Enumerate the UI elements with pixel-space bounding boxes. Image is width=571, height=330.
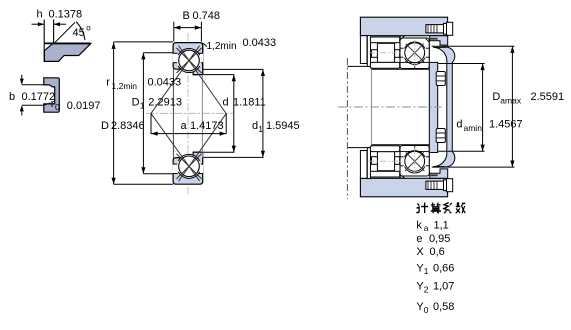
QJ bottom ball <box>405 151 425 171</box>
B extension lines <box>173 22 175 42</box>
main horizontal centerline <box>338 106 442 108</box>
roller bearing bottom inner ring <box>370 146 399 152</box>
svg-text:a: a <box>181 120 188 132</box>
svg-text:e: e <box>416 233 422 245</box>
svg-text:D: D <box>132 97 140 109</box>
svg-text:1.5945: 1.5945 <box>266 120 300 132</box>
roller centerline bottom <box>369 160 402 162</box>
svg-text:D: D <box>101 120 109 132</box>
roller bearing top outer ring <box>370 37 399 43</box>
bottom ball <box>179 156 200 177</box>
ball centerline bottom <box>414 148 416 175</box>
svg-text:1.1811: 1.1811 <box>233 97 266 109</box>
svg-text:r: r <box>106 77 110 89</box>
QJ top inner ring split <box>400 62 429 64</box>
svg-text:0.0433: 0.0433 <box>148 77 182 89</box>
housing bottom band <box>360 178 447 197</box>
45 degree arc <box>76 22 85 40</box>
QJ top corner notch <box>400 36 404 40</box>
svg-text:1.4173: 1.4173 <box>190 120 224 132</box>
title glyph xi <box>444 203 452 214</box>
bolt hole bar bottom <box>431 174 438 176</box>
bottom raceway arcs <box>178 154 199 178</box>
svg-text:B: B <box>183 10 190 22</box>
top ball cross lines <box>177 48 202 73</box>
bottom ball cross lines <box>177 154 202 179</box>
extension line right <box>53 20 55 44</box>
svg-text:d: d <box>252 120 258 132</box>
svg-text:1,2min: 1,2min <box>207 41 237 52</box>
title glyph ji <box>416 203 428 214</box>
svg-text:0.1378: 0.1378 <box>49 9 83 21</box>
ring top surface line <box>44 42 91 44</box>
svg-text:1: 1 <box>140 100 145 110</box>
svg-text:0,66: 0,66 <box>433 262 454 274</box>
bottom block left face notch <box>173 164 178 173</box>
svg-text:h: h <box>37 9 43 21</box>
d dimension line <box>233 75 235 153</box>
QJ bottom inner ring split <box>400 150 429 152</box>
svg-text:0.0197: 0.0197 <box>67 100 101 112</box>
title glyph shu <box>456 202 466 213</box>
a dimension ticks <box>150 113 152 134</box>
top block left face notch <box>173 53 178 62</box>
B dimension line <box>174 27 202 29</box>
QJ top ball <box>405 43 425 63</box>
shaft shoulder face <box>371 66 373 147</box>
svg-text:1,2min: 1,2min <box>112 81 138 91</box>
top block right face notch <box>198 53 203 62</box>
d1 dimension line <box>262 69 264 157</box>
shaft break centerline <box>346 58 348 199</box>
housing top band <box>360 17 447 36</box>
Damax dimension line <box>511 46 513 167</box>
dimension h arrows <box>32 23 67 25</box>
chamfer section shape <box>44 44 90 62</box>
svg-text:d: d <box>456 119 462 131</box>
QJ bearing top block <box>400 38 429 69</box>
QJ top right chamfer <box>426 39 429 42</box>
QJ bottom raceway arcs <box>405 151 425 173</box>
extension line left <box>43 20 45 62</box>
snap ring section shape <box>44 78 60 112</box>
svg-text:0,6: 0,6 <box>430 246 445 258</box>
D dimension line <box>113 42 115 184</box>
svg-text:k: k <box>416 220 422 232</box>
svg-text:1: 1 <box>424 266 429 276</box>
a dimension line <box>151 133 226 135</box>
horizontal axis <box>146 112 233 114</box>
top ball <box>179 50 200 71</box>
top bearing block <box>173 43 203 75</box>
svg-text:2.8346: 2.8346 <box>111 120 145 132</box>
svg-text:0,95: 0,95 <box>429 233 450 245</box>
r0 leader <box>44 103 51 105</box>
bottom block right face notch <box>198 164 203 173</box>
top bolt <box>426 25 447 33</box>
b top arrow <box>21 75 23 84</box>
end cap elbow <box>433 47 455 167</box>
svg-text:1,1: 1,1 <box>434 220 449 232</box>
svg-text:0,58: 0,58 <box>433 301 454 313</box>
QJ bearing bottom block <box>400 146 429 177</box>
r 1,2min leader top right <box>202 43 207 47</box>
Damax extension lines <box>432 45 515 47</box>
plate bolt head lower <box>436 129 445 143</box>
ball centerline top <box>414 40 416 67</box>
svg-text:D: D <box>492 91 500 103</box>
housing left wall bottom <box>360 151 367 179</box>
center vertical axis <box>187 33 189 194</box>
svg-text:0.0433: 0.0433 <box>243 37 277 49</box>
spacer ring top <box>367 36 370 67</box>
plate bolt head upper <box>436 72 445 86</box>
D1 dimension line <box>142 53 144 174</box>
svg-text:2.5591: 2.5591 <box>531 91 565 103</box>
svg-text:X: X <box>416 246 424 258</box>
shaft seat bottom surface <box>372 144 431 146</box>
svg-text:45: 45 <box>73 27 85 39</box>
bottom raceway halo <box>177 154 201 178</box>
housing left wall top <box>360 36 367 64</box>
bolt hole bar top <box>431 38 438 40</box>
b bottom arrow <box>21 107 23 116</box>
svg-text:2: 2 <box>424 284 429 294</box>
face lines between blocks <box>172 69 174 157</box>
svg-text:1.4567: 1.4567 <box>489 119 523 131</box>
top raceway halo <box>177 49 201 73</box>
contact lines <box>151 46 200 114</box>
svg-text:2.2913: 2.2913 <box>148 97 182 109</box>
QJ bottom corner notch <box>400 175 404 179</box>
svg-text:amax: amax <box>500 96 522 106</box>
roller bearing top inner ring <box>370 62 399 68</box>
shaft end plate <box>429 62 437 152</box>
svg-text:0.748: 0.748 <box>193 10 221 22</box>
roller bearing bottom flanges <box>371 157 377 165</box>
svg-text:o: o <box>86 24 91 33</box>
roller centerline top <box>369 52 402 54</box>
roller bearing top flanges <box>371 50 377 58</box>
45 degree line <box>54 22 75 43</box>
svg-text:amin: amin <box>464 123 483 133</box>
shaft shoulder <box>347 66 371 147</box>
top raceway arcs <box>178 49 199 73</box>
svg-text:0: 0 <box>424 305 429 315</box>
damin extension lines <box>438 63 484 65</box>
QJ bottom right chamfer <box>426 172 429 175</box>
spacer ring bottom <box>367 148 370 179</box>
bottom bolt <box>426 181 447 189</box>
QJ top raceway arcs <box>405 42 425 64</box>
svg-text:b: b <box>9 91 15 103</box>
roller bearing bottom roller <box>377 152 394 171</box>
svg-text:d: d <box>223 97 229 109</box>
damin dimension line <box>482 64 484 152</box>
svg-text:a: a <box>424 223 429 233</box>
title glyph suan <box>431 203 441 214</box>
housing boss top <box>430 36 448 45</box>
roller bearing bottom outer ring <box>370 171 399 177</box>
housing boss bottom <box>430 169 448 178</box>
svg-text:0: 0 <box>55 102 60 112</box>
svg-text:1,07: 1,07 <box>433 281 454 293</box>
roller bearing top roller <box>377 43 394 62</box>
shaft seat top surface <box>372 68 431 70</box>
bottom bearing block <box>173 152 203 184</box>
